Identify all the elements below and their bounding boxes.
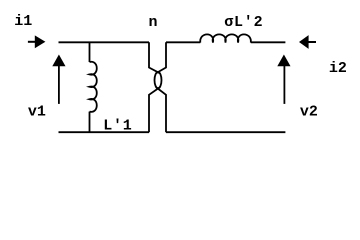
inductor L'1 bottom lead	[89, 112, 91, 133]
wire bottom left	[59, 131, 150, 133]
wire top left	[59, 41, 150, 43]
current arrow i2 head	[299, 35, 309, 49]
voltage arrow v2 shaft	[283, 64, 285, 104]
transformer T1 right winding leads	[156, 42, 166, 132]
transformer T1 left winding leads	[149, 42, 160, 132]
svg-text:v1: v1	[28, 104, 46, 121]
inductor L'1 top lead	[89, 42, 91, 62]
voltage arrow v2 head	[277, 55, 290, 67]
voltage arrow v1 shaft	[58, 64, 60, 104]
current arrow i1 shaft	[28, 41, 36, 43]
transformer T1 coupling lens	[155, 72, 162, 88]
current arrow i2 shaft	[308, 41, 316, 43]
svg-text:i1: i1	[14, 13, 32, 30]
inductor L'1 coil	[90, 62, 97, 112]
svg-text:L'1: L'1	[103, 117, 132, 134]
wire top right (transformer to coil)	[166, 41, 200, 43]
svg-text:n: n	[149, 14, 158, 31]
inductor sigma-L'2 coil	[200, 34, 251, 42]
voltage arrow v1 head	[52, 55, 65, 67]
svg-text:i2: i2	[329, 60, 347, 77]
wire top right (coil to port 2)	[251, 41, 286, 43]
current arrow i1 head	[35, 35, 46, 48]
svg-text:σL'2: σL'2	[224, 14, 263, 31]
svg-text:v2: v2	[300, 104, 318, 121]
wire bottom right	[166, 131, 285, 133]
